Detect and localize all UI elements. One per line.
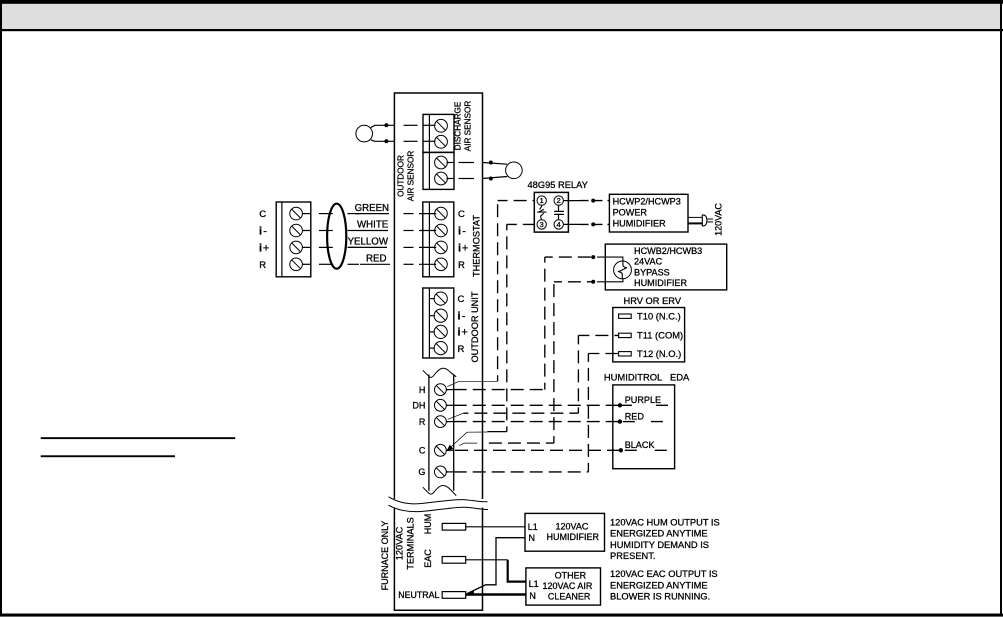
power humidifier box HCWP (609, 194, 688, 232)
svg-text:HUMIDITROL EDA: HUMIDITROL EDA (604, 371, 690, 382)
header gray bar (2, 3, 1000, 29)
wire bundle ellipse (327, 204, 346, 269)
svg-text:N: N (529, 591, 536, 601)
wire T11 riser (577, 335, 579, 413)
svg-text:OUTDOOR: OUTDOOR (397, 155, 406, 197)
strip bottom squiggle (423, 485, 456, 495)
wire HCWB top horizontal (545, 256, 593, 258)
svg-text:THERMOSTAT: THERMOSTAT (472, 215, 482, 277)
svg-text:ENERGIZED ANYTIME: ENERGIZED ANYTIME (610, 529, 708, 539)
svg-text:PURPLE: PURPLE (625, 395, 661, 405)
discharge air sensor bulb (506, 162, 523, 179)
svg-text:OUTDOOR UNIT: OUTDOOR UNIT (470, 291, 480, 362)
svg-text:T10 (N.C.): T10 (N.C.) (637, 311, 681, 322)
wire R main (to RED) (446, 421, 620, 423)
svg-text:HCWP2/HCWP3: HCWP2/HCWP3 (613, 197, 681, 207)
left field terminal block (4 screws) (276, 202, 311, 277)
svg-text:AIR SENSOR: AIR SENSOR (407, 151, 416, 202)
svg-text:1: 1 (540, 196, 544, 205)
rule line 1 (left) (41, 437, 236, 439)
svg-text:L1: L1 (529, 579, 539, 589)
wire HCWB bottom to C hairline (459, 443, 477, 446)
T11 lug (619, 333, 632, 337)
other air cleaner box (526, 568, 601, 605)
svg-text:48G95 RELAY: 48G95 RELAY (528, 180, 588, 190)
EAC lug (442, 557, 466, 564)
outdoor unit terminal block (4 screws) (423, 288, 454, 358)
HRV box (613, 308, 685, 362)
wire relay pin3 riser (506, 224, 508, 431)
wire NEUTRAL to N air cleaner (thick) (466, 593, 526, 595)
svg-text:ENERGIZED ANYTIME: ENERGIZED ANYTIME (610, 580, 708, 590)
bypass humidifier box HCWB (605, 244, 726, 290)
relay pin 3 (537, 220, 546, 229)
svg-text:YELLOW: YELLOW (348, 237, 389, 248)
svg-text:R: R (458, 344, 465, 355)
HCWB transformer circle (614, 261, 632, 279)
dashed wire to block (top) (404, 124, 418, 126)
wire relay pin4 to humidifier (563, 222, 609, 226)
svg-text:HRV OR ERV: HRV OR ERV (624, 296, 682, 306)
junction dot RED (618, 419, 622, 423)
wire solid under labels (355, 213, 389, 215)
svg-text:L1: L1 (528, 522, 538, 532)
relay K1 48G95 (534, 192, 568, 232)
svg-text:BYPASS: BYPASS (634, 267, 670, 277)
plug prongs (707, 218, 713, 220)
wire HCWB bottom to C horizontal (482, 442, 554, 444)
svg-text:120VAC EAC OUTPUT IS: 120VAC EAC OUTPUT IS (610, 569, 718, 579)
svg-text:BLACK: BLACK (625, 440, 655, 450)
HCWB input wires inside box (597, 257, 623, 282)
svg-text:FURNACE ONLY: FURNACE ONLY (380, 521, 390, 591)
svg-text:T12 (N.O.): T12 (N.O.) (637, 348, 681, 359)
svg-text:TERMINALS: TERMINALS (406, 517, 416, 570)
junction dot PURPLE (618, 403, 622, 407)
wire relay pin3 horizontal (507, 223, 535, 225)
svg-text:GREEN: GREEN (355, 203, 389, 214)
svg-text:HUMIDIFIER: HUMIDIFIER (634, 278, 687, 288)
svg-text:120VAC HUM OUTPUT IS: 120VAC HUM OUTPUT IS (610, 517, 720, 527)
svg-text:OTHER: OTHER (555, 570, 587, 580)
junction dot BLACK (619, 448, 623, 452)
outdoor air sensor bulb (356, 125, 373, 142)
svg-text:3: 3 (540, 220, 544, 229)
T10 lug (619, 314, 632, 318)
svg-text:RED: RED (366, 253, 386, 264)
arrowhead at NEUTRAL lug (466, 590, 474, 595)
svg-text:HCWB2/HCWB3: HCWB2/HCWB3 (634, 246, 702, 256)
svg-text:PRESENT.: PRESENT. (610, 551, 655, 561)
wire HCWB bottom riser (553, 282, 555, 443)
wire stubs at blocks (302, 214, 436, 349)
svg-text:DISCHARGE: DISCHARGE (454, 101, 463, 150)
dashed wire to block (bottom) (404, 140, 418, 142)
wire T11 to R horizontal (463, 412, 578, 414)
junction dot (489, 161, 493, 165)
wire HCWB bottom horizontal (554, 281, 593, 283)
svg-text:i-: i- (259, 225, 267, 237)
svg-text:AIR SENSOR: AIR SENSOR (464, 101, 473, 152)
junction dot (489, 177, 493, 181)
svg-text:CLEANER: CLEANER (548, 592, 591, 602)
svg-text:NEUTRAL: NEUTRAL (398, 590, 439, 600)
wire vertical relay pin1 riser (497, 201, 499, 382)
svg-text:C: C (419, 446, 426, 456)
wire relay pin1 horizontal (498, 200, 535, 202)
svg-text:120VAC: 120VAC (714, 203, 724, 236)
BLACK pigtail dash (621, 449, 672, 451)
svg-text:i+: i+ (458, 242, 468, 254)
terminal G (435, 466, 447, 478)
arrowhead at C (447, 445, 454, 451)
junction dot HCWB bottom (591, 280, 595, 284)
wire YELLOW (dashed) (319, 246, 414, 248)
wire T11 horizontal (578, 334, 618, 336)
junction dot (384, 139, 388, 143)
svg-text:WHITE: WHITE (357, 220, 389, 231)
low-voltage terminal strip rail right (453, 375, 455, 491)
svg-text:120VAC AIR: 120VAC AIR (543, 581, 593, 591)
svg-text:H: H (419, 385, 426, 395)
wire G riser to T12 (587, 354, 589, 472)
svg-text:C: C (458, 294, 465, 305)
wire EAC to L1 air cleaner (466, 559, 508, 561)
svg-text:2: 2 (557, 196, 561, 205)
svg-text:HUMIDIFIER: HUMIDIFIER (613, 218, 666, 228)
strip top squiggle (423, 368, 456, 377)
discharge air sensor terminal block (423, 114, 454, 152)
terminal C (435, 444, 447, 456)
wire bulb to dot top (371, 125, 395, 127)
dashed wire block to bulb (top) (447, 162, 455, 164)
HUM lug (442, 523, 466, 530)
svg-text:4: 4 (557, 220, 562, 229)
wire dot to bulb bottom (483, 177, 508, 179)
wire H main to HCWB riser (446, 389, 545, 391)
wavy break line 1 (389, 497, 488, 504)
svg-text:C: C (259, 209, 266, 220)
svg-text:i+: i+ (259, 242, 269, 254)
wire relay pin2 to humidifier (563, 199, 609, 203)
rule line 2 (left) (41, 455, 175, 457)
wire G main (446, 471, 588, 473)
header bar bottom rule (0, 29, 1003, 31)
relay capacitor symbol (554, 205, 564, 219)
relay pin 4 (554, 220, 563, 229)
wavy break line 2 (388, 505, 488, 511)
svg-text:EAC: EAC (423, 549, 433, 568)
page bottom border (0, 614, 1003, 617)
svg-text:DH: DH (412, 401, 425, 411)
NEUTRAL lug (442, 592, 466, 599)
low-voltage terminal strip rail left (428, 375, 430, 491)
junction dot HCWB top (591, 255, 595, 259)
wire relay pin3 to C horizontal (488, 431, 507, 433)
svg-text:POWER: POWER (613, 208, 648, 218)
wire H stub to relay pin1 (hairline) (447, 381, 497, 386)
svg-text:HUMIDIFIER: HUMIDIFIER (547, 532, 600, 542)
svg-text:RED: RED (625, 412, 645, 422)
plug symbol (702, 215, 707, 227)
terminal DH (435, 399, 447, 411)
wire DH main (to PURPLE) (446, 404, 620, 406)
power cord lines (688, 216, 702, 218)
relay pin 1 (537, 196, 546, 205)
HUMIDITROL box (613, 385, 675, 469)
svg-text:120VAC: 120VAC (556, 521, 589, 531)
wire dot to bulb top (483, 163, 508, 165)
wire relay pin3 to C hairline (450, 432, 488, 448)
svg-text:R: R (419, 417, 426, 427)
wire RED (dashed) (319, 263, 414, 265)
wire N humidifier to neutral (468, 538, 526, 594)
terminal R (435, 416, 447, 428)
relay pin 2 (554, 196, 563, 205)
wire bulb to dot bottom (371, 140, 395, 142)
wire GREEN (dashed) (319, 213, 414, 215)
svg-text:R: R (458, 260, 465, 271)
wire HUM to L1 (466, 526, 525, 528)
RED pigtail dash (620, 421, 671, 423)
wire HCWB top riser (544, 257, 546, 390)
svg-text:24VAC: 24VAC (634, 257, 663, 267)
furnace board outline (lower column) (394, 508, 482, 611)
dashed wire block to bulb (bottom) (447, 178, 455, 180)
svg-text:HUMIDITY DEMAND IS: HUMIDITY DEMAND IS (610, 540, 709, 550)
wire C main (to BLACK) (447, 449, 621, 451)
svg-text:C: C (458, 209, 465, 220)
svg-text:BLOWER IS RUNNING.: BLOWER IS RUNNING. (610, 592, 710, 602)
svg-text:120VAC: 120VAC (395, 526, 405, 560)
junction dot (384, 123, 388, 127)
thermostat board outline (upper column) (394, 93, 482, 499)
svg-text:T11 (COM): T11 (COM) (637, 330, 683, 341)
120VAC humidifier box (525, 513, 605, 551)
wire T11 to R diagonal (hairline) (448, 413, 464, 419)
svg-text:HUM: HUM (423, 514, 433, 535)
terminal H (435, 384, 447, 396)
thermostat terminal block (4 screws) (423, 202, 454, 277)
header bar top edge (0, 0, 1003, 4)
svg-text:i-: i- (458, 225, 466, 237)
wire T12 horizontal (588, 353, 618, 355)
screw stubs to rail (446, 390, 453, 472)
wire WHITE (dashed) (319, 230, 414, 232)
svg-text:G: G (418, 467, 425, 477)
PURPLE pigtail dash (620, 404, 668, 406)
relay switch symbol (537, 205, 546, 219)
T12 lug (619, 352, 632, 356)
outdoor air sensor terminal block (423, 152, 454, 189)
svg-text:i+: i+ (458, 327, 468, 339)
svg-text:N: N (529, 533, 536, 543)
HCWB zigzag (618, 261, 627, 278)
svg-text:i-: i- (458, 310, 466, 322)
svg-text:R: R (259, 260, 266, 271)
